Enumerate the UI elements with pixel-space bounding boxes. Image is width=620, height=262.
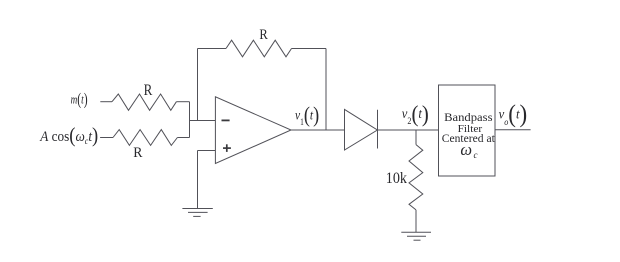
bandpass filter block U2 [439, 85, 496, 176]
resistor R2 (A cos input) [113, 130, 177, 146]
diode D1 [345, 109, 378, 150]
wire R4 to ground [415, 210, 417, 232]
wire m(t) input lead [100, 101, 112, 103]
wire R1 to junction [176, 101, 189, 103]
svg-text:R: R [144, 82, 153, 99]
wire diode to bandpass filter [378, 129, 439, 131]
ground GND1 (op-amp) [182, 209, 212, 217]
wire A cos input lead [100, 137, 113, 139]
wire op-amp output to diode [291, 129, 345, 131]
label R of R1 [144, 82, 153, 99]
wire feedback left vertical [197, 49, 199, 121]
wire junction vertical joining R1 and R2 [189, 102, 191, 138]
svg-text:m(t): m(t) [71, 90, 88, 109]
resistor R3 (feedback) [226, 40, 292, 57]
node label v1(t) [295, 102, 319, 127]
label 10k of R4 [386, 170, 407, 187]
svg-text:A cos(ωct): A cos(ωct) [39, 123, 98, 147]
wire R2 to junction [177, 137, 189, 139]
svg-text:v1(t): v1(t) [295, 102, 319, 127]
node label A cos(wc t) [39, 123, 98, 147]
op-amp U1 [215, 97, 291, 164]
svg-text:R: R [259, 27, 267, 43]
wire non-inverting input [198, 150, 216, 152]
wire output vo [495, 129, 531, 131]
node label m(t) [71, 90, 88, 109]
ground GND2 (below 10k) [401, 232, 431, 240]
resistor R4 10k [409, 145, 423, 210]
node label v2(t) [402, 101, 429, 126]
wire feedback top right [292, 48, 327, 50]
wire junction to inverting input [190, 120, 216, 122]
wire feedback top left [198, 48, 227, 50]
svg-text:v2(t): v2(t) [402, 101, 429, 126]
svg-text:10k: 10k [386, 170, 407, 187]
resistor R1 (m(t) input) [112, 94, 176, 110]
node label vo(t) [499, 99, 528, 128]
svg-text:vo(t): vo(t) [499, 99, 528, 128]
op-amp non-inverting pin plus sign [223, 144, 231, 152]
op-amp inverting pin minus sign [222, 119, 230, 121]
label R of R3 [259, 27, 267, 43]
wire non-inverting input to ground [197, 151, 199, 209]
label R of R2 [133, 145, 142, 161]
wire node v2 to resistor R4 [415, 130, 417, 145]
bandpass filter block text [442, 110, 496, 160]
svg-text:Bandpass: Bandpass [444, 110, 493, 124]
wire feedback right vertical [325, 49, 327, 131]
svg-text:R: R [133, 145, 142, 161]
